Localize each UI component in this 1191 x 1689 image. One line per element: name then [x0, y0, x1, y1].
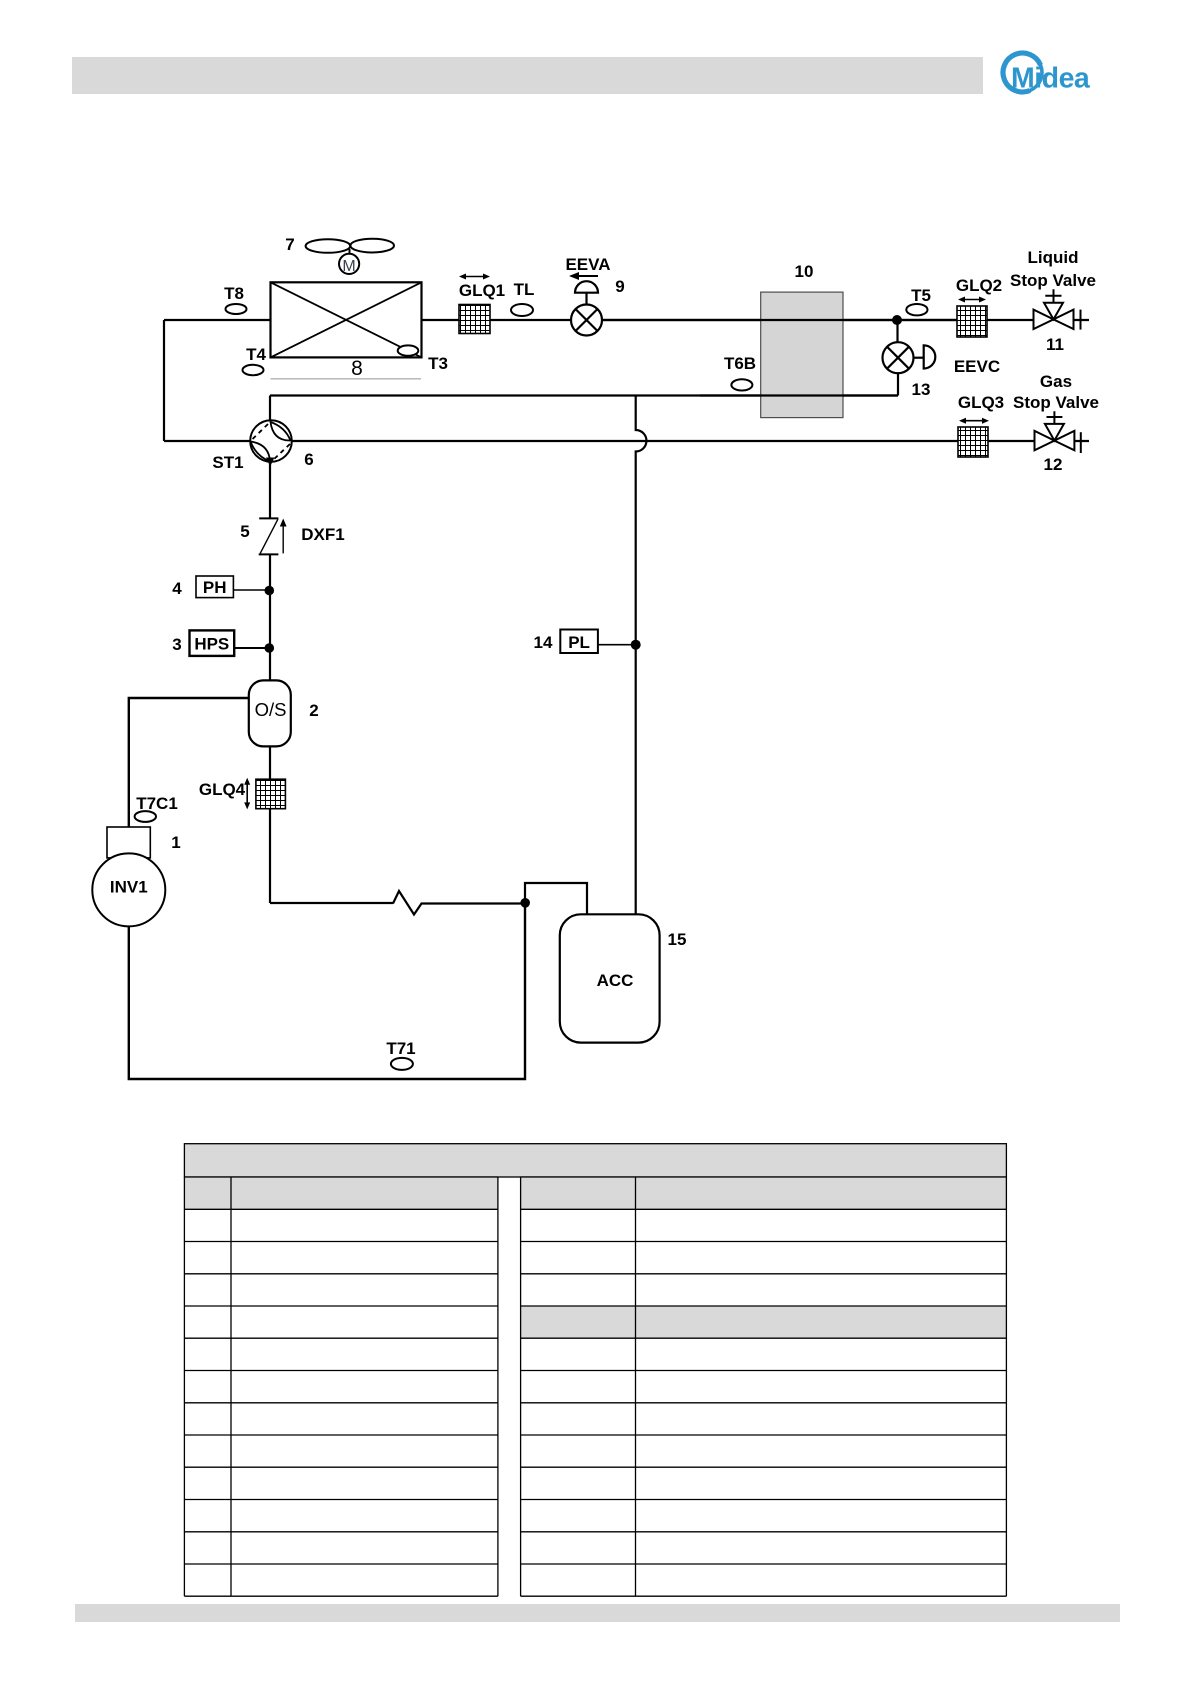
arrow GLQ3: [959, 418, 989, 424]
svg-text:T8: T8: [224, 284, 244, 303]
svg-text:15: 15: [668, 930, 687, 949]
node junction accumulator: [520, 898, 530, 908]
svg-text:Midea: Midea: [1011, 63, 1091, 95]
label GLQ2: [956, 276, 1002, 295]
sensor T5: [906, 304, 927, 315]
wire left riser: [163, 320, 165, 441]
svg-text:8: 8: [351, 357, 363, 380]
wire low pressure drop line with jump: [636, 396, 647, 915]
svg-text:HPS: HPS: [194, 635, 229, 654]
label GLQ1: [459, 281, 505, 300]
label Stop Valve liquid: [1010, 271, 1096, 290]
wire gas line: [164, 440, 1089, 442]
check valve DXF1 5: [259, 518, 284, 554]
label 11: [1046, 335, 1064, 354]
heat exchanger 8: [271, 282, 422, 357]
node junction T5 branch: [892, 315, 902, 325]
label 6: [304, 450, 313, 469]
svg-text:Stop Valve: Stop Valve: [1010, 271, 1096, 290]
sensor HPS 3: [190, 630, 270, 656]
label T71: [386, 1039, 415, 1058]
stop valve liquid 11: [1034, 289, 1081, 329]
svg-text:T5: T5: [911, 286, 931, 305]
sensor T7C1: [135, 811, 156, 822]
label T6B: [724, 354, 756, 373]
svg-text:13: 13: [912, 380, 931, 399]
svg-text:Stop Valve: Stop Valve: [1013, 393, 1099, 412]
wire subcooler return line: [270, 373, 898, 420]
svg-text:PL: PL: [568, 633, 590, 652]
svg-text:11: 11: [1046, 335, 1064, 354]
label 4: [172, 579, 182, 598]
label ST1: [212, 453, 243, 472]
arrow ST1 bottom: [266, 458, 274, 467]
label 9: [615, 277, 624, 296]
svg-text:T4: T4: [246, 345, 266, 364]
filter GLQ2: [957, 306, 987, 337]
wire O/S to GLQ4 to suction run: [270, 746, 525, 915]
filter GLQ1: [459, 305, 490, 334]
wire ST1 bottom to O/S: [269, 462, 271, 680]
label GLQ4: [199, 780, 246, 799]
label EEVA: [565, 255, 610, 274]
label 5: [240, 522, 249, 541]
label T8: [224, 284, 244, 303]
arrow GLQ4: [244, 778, 250, 810]
sensor TL: [511, 304, 533, 316]
table title row: [184, 1144, 1006, 1177]
svg-text:1: 1: [171, 833, 180, 852]
label 7: [285, 235, 294, 254]
oil separator O/S 2: [249, 680, 291, 746]
label Liquid: [1028, 248, 1079, 267]
svg-text:Gas: Gas: [1040, 372, 1072, 391]
label Stop Valve gas: [1013, 393, 1099, 412]
wire return through subcooler: [700, 394, 898, 396]
wire suction bottom loop: [129, 903, 525, 1079]
sensor T71: [391, 1058, 413, 1070]
svg-text:2: 2: [309, 701, 318, 720]
svg-text:T7C1: T7C1: [136, 794, 178, 813]
table header cells gray: [184, 1177, 1006, 1338]
node junction HPS: [265, 643, 275, 653]
label 3: [172, 635, 181, 654]
wire accumulator inlet step: [525, 883, 587, 914]
label 14: [534, 633, 553, 652]
label GLQ3: [958, 393, 1004, 412]
label T3: [428, 354, 448, 373]
label 2: [309, 701, 318, 720]
sensor T6B: [731, 379, 752, 390]
label TL: [514, 280, 535, 299]
svg-text:ACC: ACC: [597, 971, 634, 990]
valve EEVC 13: [883, 342, 936, 373]
label 13: [912, 380, 931, 399]
wire liquid through subcooler: [602, 319, 957, 321]
svg-text:9: 9: [615, 277, 624, 296]
four-way valve ST1 6: [250, 420, 292, 462]
table left grid: [184, 1177, 498, 1596]
accumulator ACC 15: [560, 914, 660, 1042]
label 8: [351, 357, 363, 380]
svg-text:EEVA: EEVA: [565, 255, 610, 274]
svg-text:GLQ2: GLQ2: [956, 276, 1002, 295]
table right grid: [521, 1177, 1007, 1596]
label 15: [668, 930, 687, 949]
svg-text:T3: T3: [428, 354, 448, 373]
label T7C1: [136, 794, 178, 813]
label T5: [911, 286, 931, 305]
Midea logo: [1003, 53, 1091, 95]
compressor terminal box: [107, 827, 150, 858]
arrow EEVA: [569, 272, 598, 280]
arrow GLQ2: [958, 297, 986, 303]
label 1: [171, 833, 180, 852]
sensor PL 14: [560, 630, 633, 654]
svg-text:6: 6: [304, 450, 313, 469]
label 10: [795, 262, 814, 281]
sensor T8: [226, 304, 247, 314]
svg-text:Liquid: Liquid: [1028, 248, 1079, 267]
svg-text:10: 10: [795, 262, 814, 281]
svg-text:4: 4: [172, 579, 182, 598]
fan 7: [306, 239, 394, 274]
svg-text:14: 14: [534, 633, 553, 652]
filter GLQ3: [958, 427, 988, 457]
svg-text:M: M: [342, 258, 355, 275]
sensor T4: [243, 365, 264, 375]
label DXF1: [301, 525, 344, 544]
label 12: [1044, 455, 1063, 474]
footer bar: [75, 1604, 1120, 1622]
svg-text:3: 3: [172, 635, 181, 654]
compressor INV1 1: [92, 853, 165, 926]
sensor T3: [398, 345, 419, 355]
stop valve gas 12: [1035, 411, 1081, 453]
label T4: [246, 345, 266, 364]
sensor PH 4: [196, 576, 269, 598]
subcooler 10: [761, 292, 843, 418]
svg-text:7: 7: [285, 235, 294, 254]
svg-text:DXF1: DXF1: [301, 525, 344, 544]
svg-text:T6B: T6B: [724, 354, 756, 373]
label EEVC: [954, 357, 1000, 376]
underline 8: [271, 378, 422, 380]
svg-text:O/S: O/S: [255, 699, 287, 720]
wire EEVC stem: [896, 320, 898, 342]
svg-text:GLQ4: GLQ4: [199, 780, 246, 799]
svg-text:5: 5: [240, 522, 249, 541]
svg-text:TL: TL: [514, 280, 535, 299]
svg-text:GLQ1: GLQ1: [459, 281, 505, 300]
filter GLQ4: [256, 779, 286, 809]
wire O/S left to compressor: [129, 698, 249, 827]
svg-text:EEVC: EEVC: [954, 357, 1000, 376]
label Gas: [1040, 372, 1072, 391]
node junction PL: [631, 640, 641, 650]
svg-text:12: 12: [1044, 455, 1063, 474]
svg-text:T71: T71: [386, 1039, 415, 1058]
arrow GLQ1: [459, 274, 490, 280]
node junction PH: [265, 586, 275, 596]
svg-text:INV1: INV1: [110, 878, 148, 897]
header bar: [72, 57, 983, 94]
svg-text:GLQ3: GLQ3: [958, 393, 1004, 412]
fan motor M label: [342, 258, 355, 275]
svg-text:ST1: ST1: [212, 453, 243, 472]
arrow DXF1: [280, 519, 287, 527]
wire main liquid line top: [164, 319, 1089, 321]
svg-text:PH: PH: [203, 578, 227, 597]
valve EEVA 9: [571, 281, 602, 335]
